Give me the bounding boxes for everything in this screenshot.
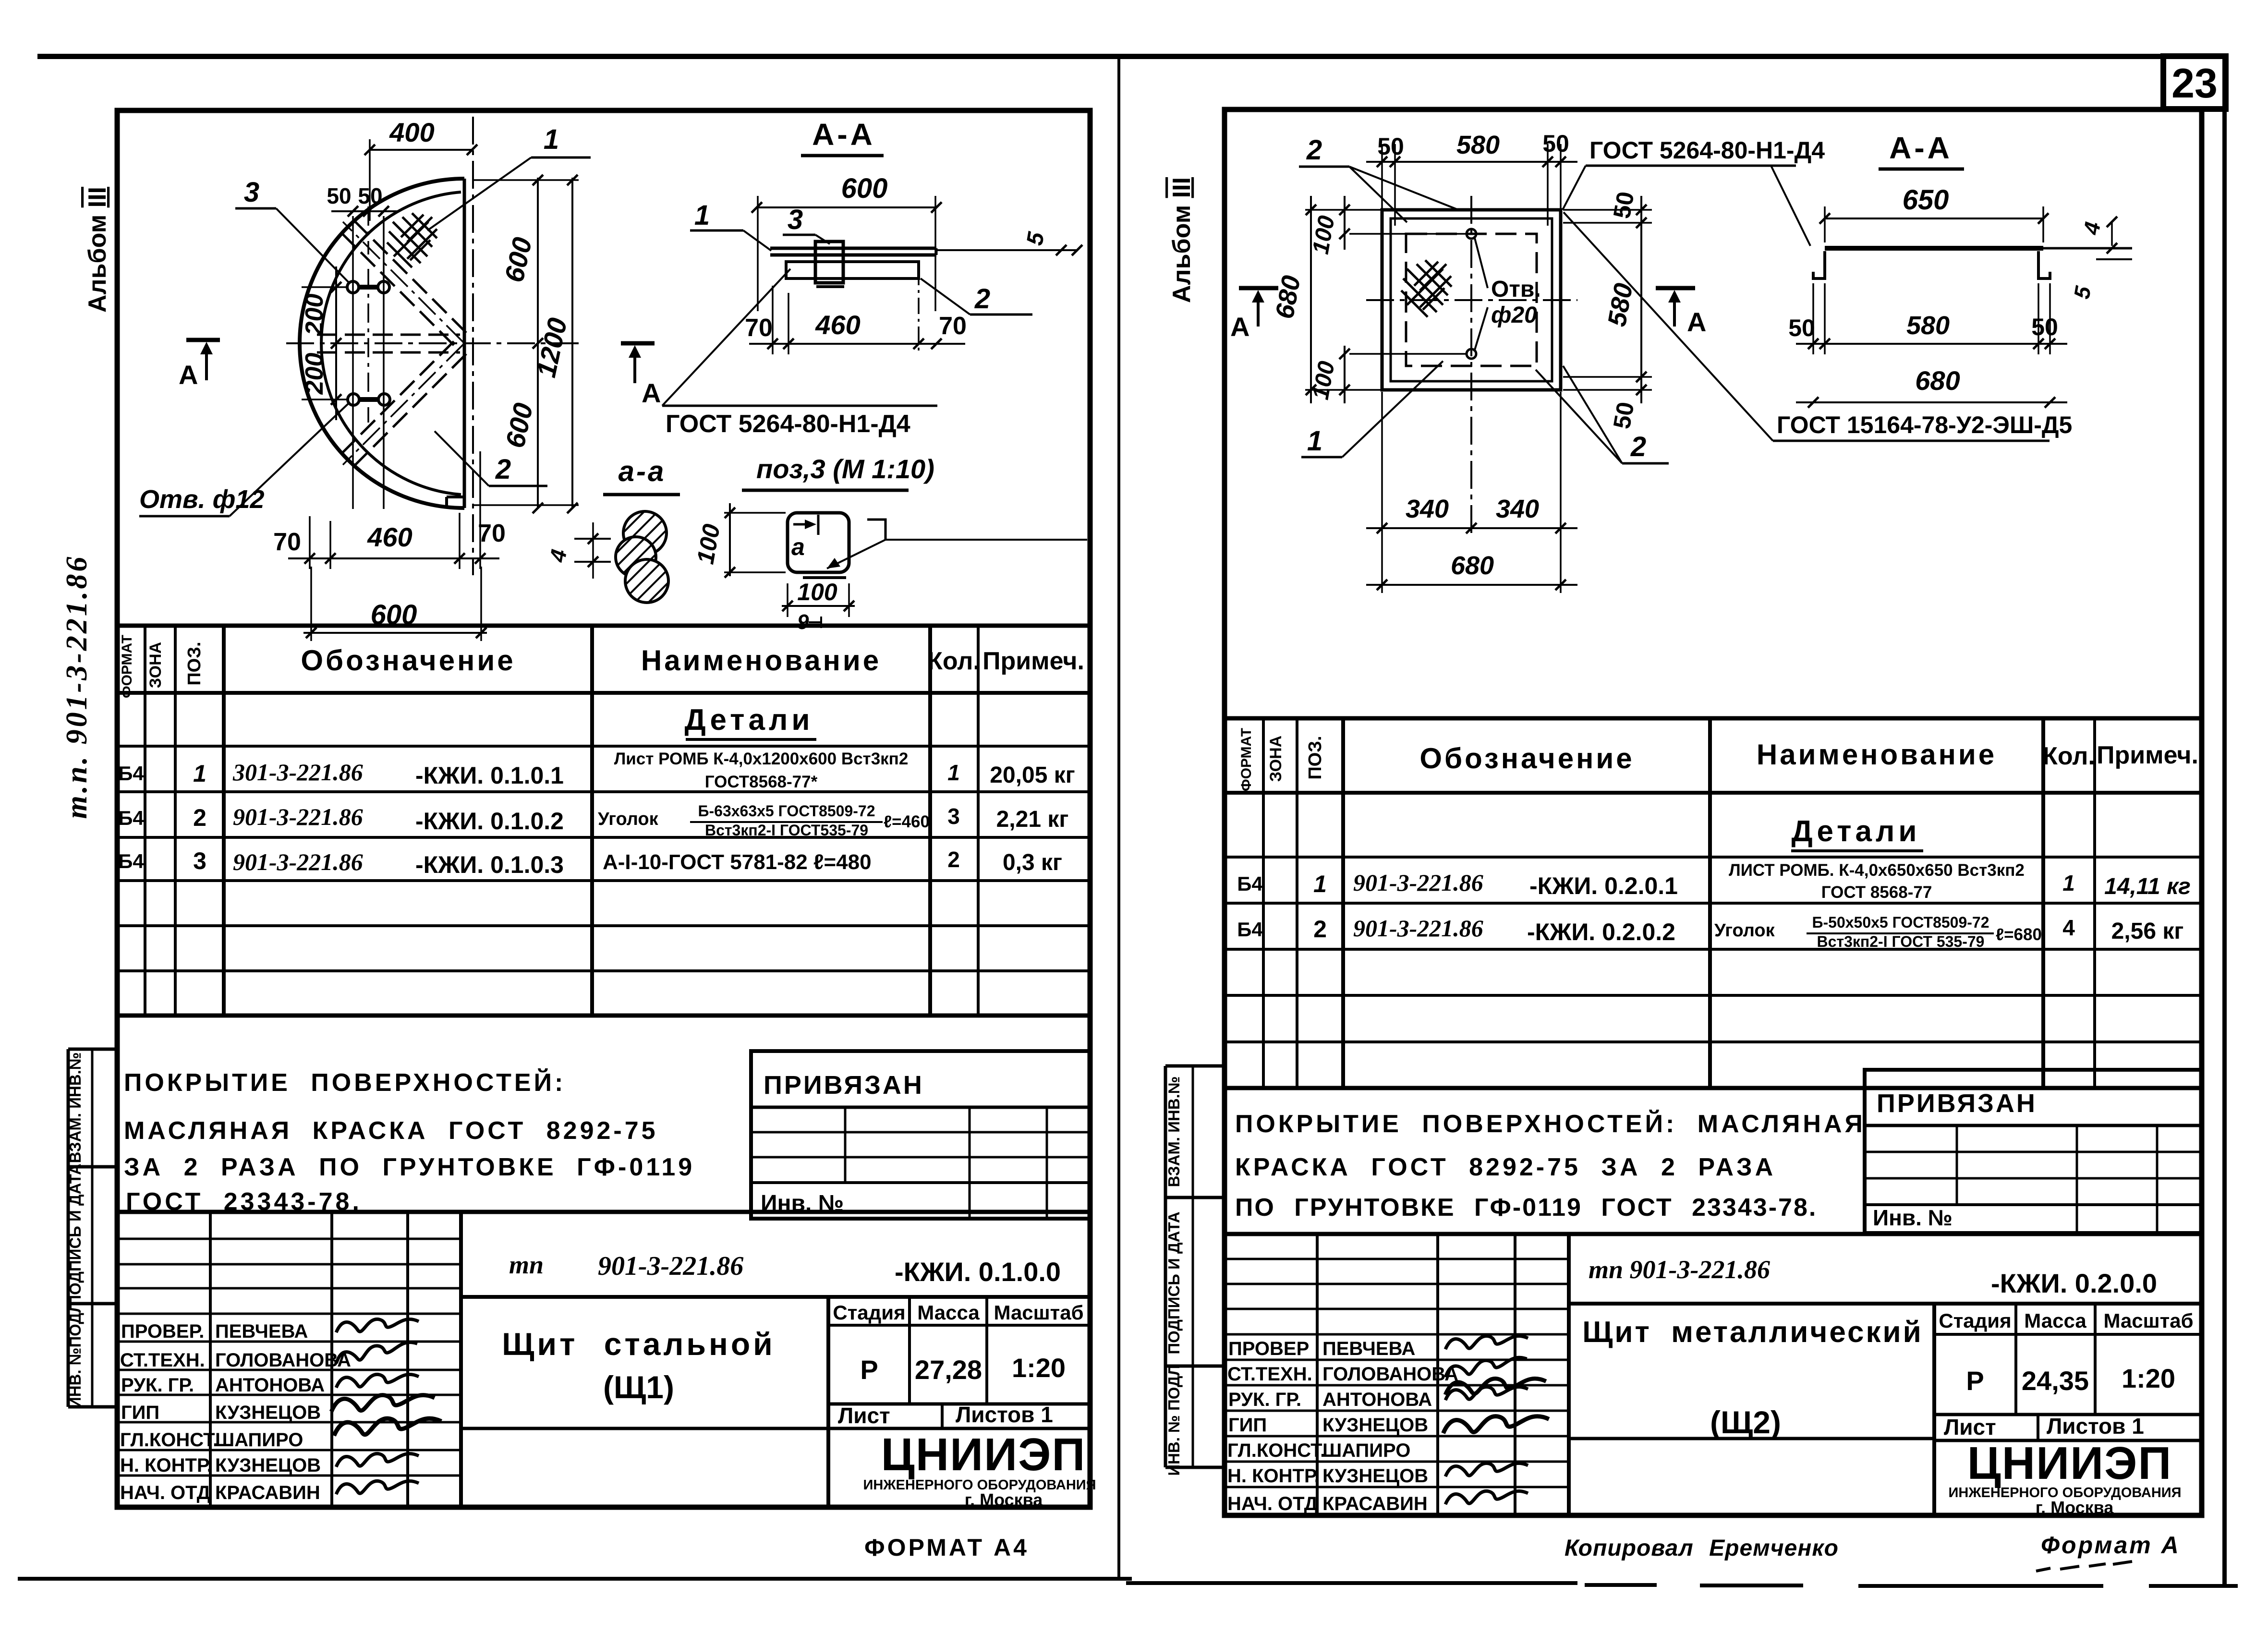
left angle hook xyxy=(1813,251,1825,278)
svg-text:Б4: Б4 xyxy=(118,762,144,785)
svg-text:Р: Р xyxy=(860,1355,878,1385)
svg-text:Вст3кп2-I ГОСТ 535-79: Вст3кп2-I ГОСТ 535-79 xyxy=(1817,933,1985,950)
svg-text:ГОСТ 15164-78-У2-ЭШ-Д5: ГОСТ 15164-78-У2-ЭШ-Д5 xyxy=(1777,411,2072,438)
right sheet frame xyxy=(1225,109,2202,1515)
vertical axis dash-dot centerline xyxy=(472,117,474,575)
svg-text:а: а xyxy=(791,533,805,560)
svg-text:400: 400 xyxy=(389,117,434,147)
ЦНИИЭП block xyxy=(863,1429,1096,1510)
svg-text:А-I-10-ГОСТ 5781-82 ℓ=480: А-I-10-ГОСТ 5781-82 ℓ=480 xyxy=(603,850,872,874)
hatched bar circles xyxy=(616,511,668,603)
svg-text:50: 50 xyxy=(327,183,351,208)
svg-text:Примеч.: Примеч. xyxy=(2097,741,2198,769)
svg-text:(Щ2): (Щ2) xyxy=(1710,1404,1781,1440)
svg-text:2: 2 xyxy=(1313,916,1327,943)
section A-A title (right) xyxy=(1879,131,1964,169)
svg-text:2: 2 xyxy=(1306,134,1322,166)
horizontal axis dash-dot xyxy=(1366,299,1577,301)
svg-text:Листов 1: Листов 1 xyxy=(956,1402,1053,1427)
dimension 100 (поз.3 horizontal) xyxy=(782,579,855,634)
svg-text:Масштаб: Масштаб xyxy=(2103,1309,2193,1332)
svg-text:тп: тп xyxy=(509,1250,544,1279)
svg-text:КУЗНЕЦОВ: КУЗНЕЦОВ xyxy=(215,1402,321,1423)
svg-text:Альбом III: Альбом III xyxy=(84,187,111,313)
svg-text:Уголок: Уголок xyxy=(1714,920,1775,941)
svg-text:КРАСКА ГОСТ 8292-75 ЗА 2: КРАСКА ГОСТ 8292-75 ЗА 2 РАЗА xyxy=(1235,1153,1776,1181)
svg-text:Масштаб: Масштаб xyxy=(994,1301,1083,1324)
svg-text:2,21 кг: 2,21 кг xyxy=(996,807,1069,832)
dimension 200 200 vertical xyxy=(301,266,349,420)
svg-text:Листов 1: Листов 1 xyxy=(2047,1414,2144,1439)
svg-text:Примеч.: Примеч. xyxy=(982,647,1084,675)
svg-text:50: 50 xyxy=(1608,190,1639,221)
svg-text:ШАПИРО: ШАПИРО xyxy=(1322,1440,1410,1461)
svg-text:650: 650 xyxy=(1903,184,1949,216)
dimension 600 (section) xyxy=(752,173,942,311)
table headers (right) xyxy=(1238,728,2198,791)
svg-text:Н. КОНТР.: Н. КОНТР. xyxy=(1227,1465,1320,1487)
leader label 3 xyxy=(235,177,350,283)
svg-text:Лист: Лист xyxy=(838,1403,890,1428)
weld hatch patch on plan (right) xyxy=(1401,260,1452,317)
dimension 4 (detail a-a) xyxy=(545,522,611,579)
svg-text:1:20: 1:20 xyxy=(1012,1353,1066,1383)
svg-text:ПО ГРУНТОВКЕ ГФ-0119 ГОСТ 23: ПО ГРУНТОВКЕ ГФ-0119 ГОСТ 23343-78. xyxy=(1235,1194,1817,1222)
svg-text:1:20: 1:20 xyxy=(2122,1363,2175,1393)
svg-text:2,56 кг: 2,56 кг xyxy=(2111,919,2184,944)
svg-text:200: 200 xyxy=(301,294,328,336)
section mark A right (right sheet) xyxy=(1656,288,1706,337)
svg-text:460: 460 xyxy=(815,310,860,340)
svg-text:3: 3 xyxy=(788,204,803,235)
chord bottom step xyxy=(447,497,464,508)
svg-text:ГОСТ 5264-80-Н1-Д4: ГОСТ 5264-80-Н1-Д4 xyxy=(666,410,910,438)
svg-text:КУЗНЕЦОВ: КУЗНЕЦОВ xyxy=(1322,1465,1428,1487)
svg-text:70: 70 xyxy=(939,312,967,340)
svg-text:27,28: 27,28 xyxy=(915,1355,982,1385)
table row 2 (right) xyxy=(1237,914,2183,950)
leader label 3 (section) xyxy=(783,204,830,244)
svg-text:Б4: Б4 xyxy=(118,807,144,829)
extension verticals below hooks xyxy=(1813,283,2050,354)
table grid (right) xyxy=(1225,718,2202,1088)
svg-text:ГОЛОВАНОВА: ГОЛОВАНОВА xyxy=(1322,1364,1458,1385)
svg-text:ЗОНА: ЗОНА xyxy=(146,642,165,688)
svg-text:Стадия: Стадия xyxy=(833,1301,905,1324)
hook symbol and leader line to frame xyxy=(827,520,1087,568)
svg-text:2: 2 xyxy=(974,283,990,314)
svg-text:А: А xyxy=(1687,307,1706,337)
svg-text:340: 340 xyxy=(1496,495,1539,523)
svg-text:Б4: Б4 xyxy=(118,850,144,872)
svg-text:Детали: Детали xyxy=(685,703,814,737)
svg-text:ℓ=680: ℓ=680 xyxy=(1996,925,2042,944)
svg-text:901-3-221.86: 901-3-221.86 xyxy=(1353,915,1483,942)
angle brace поз.2 horizontal (hidden, dashed) xyxy=(317,335,460,352)
dimension 4 right end xyxy=(2078,217,2117,254)
svg-text:тп 901-3-221.86: тп 901-3-221.86 xyxy=(1589,1255,1770,1284)
svg-text:т.п. 901-3-221.86: т.п. 901-3-221.86 xyxy=(61,555,93,819)
dimension 5 (plate thickness) xyxy=(936,230,1082,255)
Стадия Масса Масштаб xyxy=(833,1301,1083,1428)
svg-text:Н. КОНТР.: Н. КОНТР. xyxy=(120,1455,212,1476)
svg-text:ГОСТ 5264-80-Н1-Д4: ГОСТ 5264-80-Н1-Д4 xyxy=(1589,137,1825,164)
svg-text:3: 3 xyxy=(193,847,206,874)
svg-text:-КЖИ. 0.2.0.0: -КЖИ. 0.2.0.0 xyxy=(1991,1268,2157,1298)
page bottom rule right (dashed) xyxy=(1126,1583,2238,1586)
svg-text:НАЧ. ОТД: НАЧ. ОТД xyxy=(120,1482,210,1503)
title block grid (right) xyxy=(1225,1234,2202,1515)
svg-text:680: 680 xyxy=(1915,365,1960,396)
table headers xyxy=(119,635,1084,698)
dimension 50 580 50 top xyxy=(1366,130,1577,226)
svg-text:1: 1 xyxy=(694,200,710,231)
svg-text:ШАПИРО: ШАПИРО xyxy=(215,1429,303,1451)
page right outer border xyxy=(2222,56,2227,1585)
angle поз.2 in section xyxy=(786,262,919,278)
svg-text:А: А xyxy=(642,378,661,408)
svg-text:А-А: А-А xyxy=(1889,131,1953,165)
svg-text:КРАСАВИН: КРАСАВИН xyxy=(1322,1493,1428,1514)
right margin stamp boxes xyxy=(1165,1066,1226,1467)
svg-text:70: 70 xyxy=(478,520,506,547)
svg-text:АНТОНОВА: АНТОНОВА xyxy=(1322,1389,1432,1410)
svg-text:поз,3 (М 1:10): поз,3 (М 1:10) xyxy=(756,454,934,484)
dimension 680 bottom xyxy=(1366,551,1577,590)
svg-text:Копировал Еремченко: Копировал Еремченко xyxy=(1565,1536,1839,1561)
dimension 400 xyxy=(364,117,477,221)
svg-text:ПОДПИСЬ И ДАТА: ПОДПИСЬ И ДАТА xyxy=(1165,1211,1183,1354)
sheet divider line xyxy=(1117,56,1120,1581)
svg-text:1: 1 xyxy=(1307,425,1322,457)
dimension 600/600 right vertical xyxy=(473,175,579,513)
plate edge extension right xyxy=(2043,247,2132,250)
weld label ГОСТ 5264-80-Н1-Д4 (right sheet) xyxy=(1563,137,1825,246)
table row 3 xyxy=(118,847,1062,878)
svg-text:Б4: Б4 xyxy=(1237,872,1263,895)
svg-text:-КЖИ. 0.1.0.1: -КЖИ. 0.1.0.1 xyxy=(415,762,564,789)
svg-text:ГОСТ 8568-77: ГОСТ 8568-77 xyxy=(1821,883,1932,902)
svg-text:-КЖИ. 0.1.0.0: -КЖИ. 0.1.0.0 xyxy=(895,1257,1061,1287)
bolt extension verticals xyxy=(353,206,384,509)
svg-text:г. Москва: г. Москва xyxy=(2036,1498,2114,1517)
hole Отв. ф20 upper xyxy=(1467,229,1476,239)
dimension 70 460 70 (section) xyxy=(745,269,967,354)
svg-text:Лист: Лист xyxy=(1944,1415,1996,1439)
role rows (right) xyxy=(1227,1338,1458,1514)
svg-text:СТ.ТЕХН.: СТ.ТЕХН. xyxy=(120,1350,205,1371)
plate inner edge xyxy=(1391,218,1552,381)
svg-text:Обозначение: Обозначение xyxy=(1419,742,1634,774)
svg-text:КУЗНЕЦОВ: КУЗНЕЦОВ xyxy=(1322,1415,1428,1436)
plate поз.1 outer square xyxy=(1382,210,1561,390)
horizontal dash-dot centerline xyxy=(286,342,579,344)
svg-text:ПРОВЕР.: ПРОВЕР. xyxy=(121,1321,204,1342)
ЦНИИЭП block (right) xyxy=(1949,1438,2182,1517)
bolt pair upper поз.3 xyxy=(347,281,389,293)
dimension 5 right end xyxy=(2069,259,2132,301)
svg-text:РУК. ГР.: РУК. ГР. xyxy=(121,1375,194,1396)
leader label 2 xyxy=(435,431,547,486)
svg-text:ф20: ф20 xyxy=(1491,302,1537,328)
svg-text:АНТОНОВА: АНТОНОВА xyxy=(215,1375,325,1396)
dimension 1200 vertical xyxy=(531,175,578,513)
dimension 340 340 bottom xyxy=(1366,392,1577,593)
svg-text:Лист РОМБ К-4,0х1200х600 Вст3к: Лист РОМБ К-4,0х1200х600 Вст3кп2 xyxy=(614,750,909,768)
svg-text:70: 70 xyxy=(273,528,301,556)
table grid xyxy=(117,626,1090,1016)
svg-text:901-3-221.86: 901-3-221.86 xyxy=(233,848,363,875)
svg-text:Щит металлический: Щит металлический xyxy=(1582,1316,1923,1349)
svg-text:2: 2 xyxy=(947,847,960,872)
title Щит металлический (Щ2) xyxy=(1582,1316,1923,1440)
section A-A title xyxy=(801,117,884,156)
svg-text:50: 50 xyxy=(1542,130,1569,157)
page number box 23 xyxy=(2163,56,2226,109)
svg-text:-КЖИ. 0.1.0.3: -КЖИ. 0.1.0.3 xyxy=(415,851,564,878)
svg-text:ФОРМАТ: ФОРМАТ xyxy=(119,635,135,698)
dimension 100 (поз.3 vertical) xyxy=(691,503,786,578)
svg-text:Кол.: Кол. xyxy=(2042,742,2095,770)
svg-text:100: 100 xyxy=(797,579,837,605)
svg-text:КРАСАВИН: КРАСАВИН xyxy=(215,1482,320,1503)
svg-text:Формат А: Формат А xyxy=(2041,1532,2181,1559)
svg-text:ПРИВЯЗАН: ПРИВЯЗАН xyxy=(1877,1089,2037,1118)
svg-text:ГЛ.КОНСТ.: ГЛ.КОНСТ. xyxy=(1227,1440,1325,1461)
bar поз.3 in section xyxy=(815,242,844,287)
weld leader ГОСТ 5264-80-Н1-Д4 xyxy=(662,269,937,438)
table row 1 xyxy=(118,750,1075,791)
inner mark a with arrow xyxy=(791,515,818,560)
svg-text:600: 600 xyxy=(841,173,888,204)
svg-text:ПОЗ.: ПОЗ. xyxy=(1305,736,1325,779)
svg-text:ГИП: ГИП xyxy=(121,1402,159,1423)
svg-text:Отв. ф12: Отв. ф12 xyxy=(139,485,264,514)
svg-text:ЛИСТ РОМБ. К-4,0х650х650 Вст3к: ЛИСТ РОМБ. К-4,0х650х650 Вст3кп2 xyxy=(1729,861,2025,880)
svg-text:ПОЗ.: ПОЗ. xyxy=(184,641,205,685)
svg-text:КУЗНЕЦОВ: КУЗНЕЦОВ xyxy=(215,1455,321,1476)
leader label 2 (section) xyxy=(921,278,1032,314)
svg-text:580: 580 xyxy=(1456,131,1500,159)
section heading Детали xyxy=(685,703,816,739)
svg-text:-КЖИ. 0.1.0.2: -КЖИ. 0.1.0.2 xyxy=(415,808,564,835)
svg-text:2: 2 xyxy=(193,804,206,831)
dimension 680 and 100s left xyxy=(1270,196,1467,403)
angle brace поз.2 lower diagonal (hidden, dashed) xyxy=(341,341,466,467)
svg-text:23: 23 xyxy=(2171,60,2218,107)
svg-text:Кол.: Кол. xyxy=(927,647,980,675)
svg-text:Альбом III: Альбом III xyxy=(1168,177,1196,303)
svg-text:70: 70 xyxy=(745,314,773,342)
svg-text:50: 50 xyxy=(2031,314,2058,340)
svg-text:0,3 кг: 0,3 кг xyxy=(1003,850,1062,875)
svg-text:МАСЛЯНАЯ КРАСКА ГОСТ 8292-75: МАСЛЯНАЯ КРАСКА ГОСТ 8292-75 xyxy=(124,1117,658,1145)
svg-text:1: 1 xyxy=(1313,871,1327,897)
hole Отв. ф20 lower xyxy=(1467,349,1476,359)
svg-text:Стадия: Стадия xyxy=(1939,1309,2011,1332)
dimension 50 580 50 (section right) xyxy=(1788,311,2067,349)
svg-text:Отв.: Отв. xyxy=(1491,277,1541,302)
svg-text:50: 50 xyxy=(1377,133,1404,160)
angle brace поз.2 upper diagonal (hidden, dashed) xyxy=(341,220,466,345)
svg-text:Б-63х63х5 ГОСТ8509-72: Б-63х63х5 ГОСТ8509-72 xyxy=(698,802,875,820)
plate поз.1 outer semicircle arc xyxy=(300,179,464,508)
svg-text:НАЧ. ОТД: НАЧ. ОТД xyxy=(1227,1493,1318,1514)
svg-text:ГОЛОВАНОВА: ГОЛОВАНОВА xyxy=(215,1350,351,1371)
svg-text:ГИП: ГИП xyxy=(1228,1415,1267,1436)
svg-text:901-3-221.86: 901-3-221.86 xyxy=(1353,869,1483,896)
svg-text:ПОКРЫТИЕ ПОВЕРХНОСТЕЙ:: ПОКРЫТИЕ ПОВЕРХНОСТЕЙ: xyxy=(124,1068,566,1097)
svg-text:50: 50 xyxy=(1788,314,1815,341)
svg-text:1: 1 xyxy=(947,760,960,785)
svg-text:1: 1 xyxy=(2062,871,2075,895)
left Привязан box xyxy=(751,1051,1090,1219)
role rows xyxy=(120,1321,351,1503)
detail a-a title xyxy=(603,455,680,495)
svg-text:ЗОНА: ЗОНА xyxy=(1267,736,1285,782)
svg-text:ПЕВЧЕВА: ПЕВЧЕВА xyxy=(215,1321,308,1342)
svg-text:ВЗАМ. ИНВ.№: ВЗАМ. ИНВ.№ xyxy=(66,1052,84,1163)
svg-text:3: 3 xyxy=(244,177,259,208)
svg-text:а-а: а-а xyxy=(619,455,666,487)
svg-text:1: 1 xyxy=(544,124,559,155)
leader label 2 top left xyxy=(1299,134,1458,222)
dimension 70 460 70 bottom xyxy=(273,451,506,569)
svg-text:ЗА 2 РАЗА ПО ГРУНТОВКЕ ГФ: ЗА 2 РАЗА ПО ГРУНТОВКЕ ГФ-0119 xyxy=(124,1153,695,1181)
svg-text:Уголок: Уголок xyxy=(598,809,659,829)
svg-text:24,35: 24,35 xyxy=(2022,1366,2089,1396)
svg-text:ПОДПИСЬ И ДАТА: ПОДПИСЬ И ДАТА xyxy=(66,1163,84,1306)
title Щит стальной (Щ1) xyxy=(502,1326,775,1405)
section mark A left xyxy=(179,340,220,390)
weld hatch patch on plan xyxy=(387,213,437,267)
signatures (right) xyxy=(1443,1336,1549,1504)
svg-text:ПРОВЕР: ПРОВЕР xyxy=(1228,1338,1309,1359)
svg-text:Вст3кп2-I ГОСТ535-79: Вст3кп2-I ГОСТ535-79 xyxy=(705,822,868,839)
svg-text:-КЖИ. 0.2.0.2: -КЖИ. 0.2.0.2 xyxy=(1527,919,1675,945)
bent plate поз.3 detail xyxy=(788,513,849,578)
svg-text:ПЕВЧЕВА: ПЕВЧЕВА xyxy=(1322,1338,1415,1359)
svg-text:1: 1 xyxy=(193,760,206,787)
svg-text:2: 2 xyxy=(495,454,511,485)
vertical axis dash-dot xyxy=(1470,196,1472,535)
svg-text:Масса: Масса xyxy=(2024,1309,2086,1332)
dimension 50 50 xyxy=(327,183,399,217)
svg-text:-КЖИ. 0.2.0.1: -КЖИ. 0.2.0.1 xyxy=(1529,872,1678,899)
svg-text:Масса: Масса xyxy=(917,1301,980,1324)
hidden angle frame поз.2 (dashed) xyxy=(1406,234,1537,366)
plate inner semicircle arc xyxy=(321,192,461,495)
dimension 600 bottom xyxy=(303,567,487,641)
svg-text:Обозначение: Обозначение xyxy=(301,644,515,677)
signatures xyxy=(331,1319,441,1494)
svg-text:200: 200 xyxy=(301,353,328,395)
svg-text:301-3-221.86: 301-3-221.86 xyxy=(232,759,363,786)
svg-text:580: 580 xyxy=(1906,311,1950,340)
svg-text:ИНВ. №ПОДЛ: ИНВ. №ПОДЛ xyxy=(66,1302,84,1408)
svg-text:А: А xyxy=(179,360,198,390)
svg-text:Наименование: Наименование xyxy=(641,644,881,677)
svg-text:901-3-221.86: 901-3-221.86 xyxy=(598,1251,743,1281)
svg-text:4: 4 xyxy=(2062,915,2075,940)
svg-text:Инв. №: Инв. № xyxy=(1873,1205,1953,1230)
svg-text:(Щ1): (Щ1) xyxy=(603,1369,674,1405)
svg-text:Б4: Б4 xyxy=(1237,918,1263,941)
document number row xyxy=(509,1250,1061,1287)
leader label Отв. ф12 xyxy=(139,403,349,516)
svg-text:Наименование: Наименование xyxy=(1757,738,1997,771)
svg-text:г. Москва: г. Москва xyxy=(965,1490,1043,1510)
left margin stamp boxes xyxy=(68,1049,117,1407)
Стадия Масса Масштаб (right) xyxy=(1939,1309,2193,1439)
svg-text:ЦНИИЭП: ЦНИИЭП xyxy=(881,1429,1086,1480)
left sheet frame xyxy=(117,110,1090,1507)
svg-text:ГЛ.КОНСТ.: ГЛ.КОНСТ. xyxy=(120,1429,218,1451)
svg-text:460: 460 xyxy=(367,522,412,552)
svg-text:РУК. ГР.: РУК. ГР. xyxy=(1228,1389,1301,1410)
right Привязан box xyxy=(1865,1070,2202,1233)
svg-text:А: А xyxy=(1230,312,1249,342)
section mark A right xyxy=(621,343,661,408)
chord edge line xyxy=(463,179,466,508)
table row 1 (right) xyxy=(1237,861,2191,902)
svg-text:ВЗАМ. ИНВ.№: ВЗАМ. ИНВ.№ xyxy=(1165,1076,1183,1187)
svg-text:ФОРМАТ: ФОРМАТ xyxy=(1238,728,1254,791)
dimension 650 xyxy=(1819,184,2049,242)
title block grid xyxy=(117,1212,1090,1507)
page top rule xyxy=(37,54,2226,59)
svg-text:14,11 кг: 14,11 кг xyxy=(2104,874,2191,899)
section heading Детали (right) xyxy=(1791,815,1923,851)
svg-text:680: 680 xyxy=(1451,551,1494,580)
leader label 1 xyxy=(427,124,591,230)
page bottom rule left xyxy=(18,1577,1132,1581)
svg-text:3: 3 xyxy=(947,804,960,829)
svg-text:50: 50 xyxy=(358,183,382,208)
detail поз.3 title xyxy=(742,454,934,490)
smudge marks bottom right xyxy=(2036,1561,2132,1571)
svg-text:Б-50х50х5 ГОСТ8509-72: Б-50х50х5 ГОСТ8509-72 xyxy=(1812,914,1989,931)
dimension 680 (section right) xyxy=(1796,365,2067,408)
svg-text:9: 9 xyxy=(797,610,809,634)
weld label ГОСТ 15164-78-У2-ЭШ-Д5 xyxy=(1564,212,2072,441)
document number row (right) xyxy=(1589,1255,2157,1298)
right angle hook xyxy=(2038,251,2050,278)
leader label 2 bottom right xyxy=(1536,366,1669,463)
svg-text:ФОРМАТ А4: ФОРМАТ А4 xyxy=(864,1534,1029,1561)
svg-text:20,05 кг: 20,05 кг xyxy=(990,762,1075,788)
dimension 50 580 50 right xyxy=(1563,190,1652,431)
svg-text:Щит стальной: Щит стальной xyxy=(502,1326,775,1362)
svg-text:А-А: А-А xyxy=(812,117,875,152)
plate поз.1 in section (right) xyxy=(1825,246,2043,251)
svg-text:50: 50 xyxy=(1608,400,1639,431)
svg-text:ЦНИИЭП: ЦНИИЭП xyxy=(1967,1438,2172,1489)
svg-text:ГОСТ8568-77*: ГОСТ8568-77* xyxy=(705,773,818,791)
svg-text:ПОКРЫТИЕ ПОВЕРХНОСТЕЙ: МАСЛЯ: ПОКРЫТИЕ ПОВЕРХНОСТЕЙ: МАСЛЯНАЯ xyxy=(1235,1110,1866,1138)
svg-text:ℓ=460: ℓ=460 xyxy=(884,812,930,831)
svg-text:901-3-221.86: 901-3-221.86 xyxy=(233,803,363,830)
bolt pair lower поз.3 xyxy=(348,394,390,405)
section mark A left (right sheet) xyxy=(1230,288,1278,342)
svg-text:340: 340 xyxy=(1406,495,1449,523)
svg-text:СТ.ТЕХН.: СТ.ТЕХН. xyxy=(1227,1364,1312,1385)
plate поз.1 in section xyxy=(770,248,936,255)
leader label 1 bottom left xyxy=(1301,361,1443,457)
table row 2 xyxy=(118,802,1068,839)
svg-text:Р: Р xyxy=(1966,1366,1984,1396)
svg-text:2: 2 xyxy=(1630,431,1646,462)
